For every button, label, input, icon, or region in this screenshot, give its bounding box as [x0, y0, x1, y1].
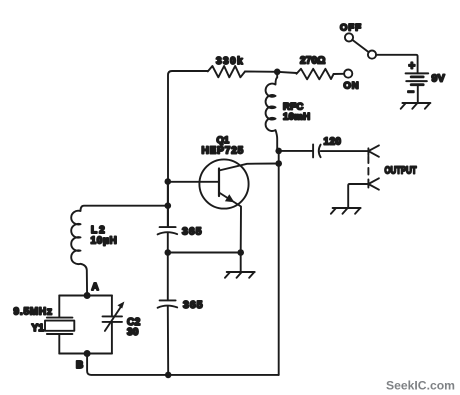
capacitor C5 365 lower plates [160, 299, 176, 301]
wire: C2 top lead [111, 296, 113, 317]
transistor Q1 base bar [218, 169, 220, 197]
connector J1 shield (bottom) [368, 178, 379, 189]
transistor Q1 emitter [219, 193, 241, 253]
switch S1 OFF contact circle [345, 33, 353, 41]
ground G1 (battery) [401, 103, 431, 109]
node junction L2 tee [165, 202, 172, 209]
capacitor C2 plates [103, 315, 123, 317]
node junction emitter tee [165, 249, 172, 256]
battery B1 plates [406, 72, 429, 74]
svg-text:365: 365 [182, 226, 203, 238]
wire: emitter to ground [240, 253, 242, 272]
svg-text:270Ω: 270Ω [300, 56, 326, 67]
svg-text:120: 120 [324, 137, 342, 148]
svg-text:Q1: Q1 [217, 135, 230, 146]
svg-text:Y1: Y1 [32, 323, 45, 334]
wire: battery negative lead [417, 85, 419, 103]
switch S1 ON contact circle [344, 70, 352, 78]
wire + inductor L2 coil [71, 206, 168, 296]
transistor Q1 emitter arrow [225, 194, 234, 202]
node B [84, 350, 91, 357]
node junction base tee [165, 178, 172, 185]
node junction emitter/ground [237, 249, 244, 256]
svg-text:10µH: 10µH [91, 236, 118, 247]
crystal Y1 bottom plate [47, 333, 73, 335]
svg-text:330k: 330k [216, 56, 244, 67]
wire: bottom return wire [168, 374, 279, 376]
node A [84, 292, 91, 299]
connector J1 output tip (top) [368, 145, 379, 156]
wire: tank top [59, 295, 112, 297]
svg-text:9.5MHz: 9.5MHz [14, 307, 53, 318]
node junction supply/RFC [274, 69, 281, 76]
wire: left rail top segment [168, 71, 208, 227]
svg-text:9V: 9V [432, 73, 446, 85]
ground G2 (output) [331, 208, 361, 214]
svg-text:−: − [408, 87, 415, 99]
svg-text:30: 30 [127, 327, 139, 338]
node junction collector [275, 160, 282, 167]
capacitor C3 120 plates [312, 144, 314, 157]
wire: switch common to battery [376, 55, 418, 73]
resistor R1 330k zigzag [208, 66, 245, 77]
capacitor C4 365 upper: rail gap [167, 182, 169, 227]
wire: resistor to ON contact [334, 73, 345, 75]
wire: supply wire to junction [245, 71, 277, 73]
svg-text:365: 365 [183, 299, 204, 311]
wire: emitter tee wire [168, 252, 241, 254]
svg-text:OFF: OFF [340, 23, 362, 34]
wire: junction to capacitor 120 [279, 150, 313, 152]
transistor Q1 collector [219, 164, 279, 171]
svg-text:ON: ON [344, 81, 360, 92]
wire: rail between caps [167, 233, 169, 300]
svg-text:+: + [409, 61, 416, 73]
wire: capacitor to output jack [321, 150, 369, 152]
svg-text:SeekIC.com: SeekIC.com [386, 379, 455, 393]
crystal Y1 top plate [47, 317, 73, 319]
ground G3 (emitter) [225, 272, 255, 278]
dashed shield line [367, 157, 369, 181]
wire: shield to ground [348, 184, 368, 208]
capacitor C2 arrow [105, 305, 123, 331]
wire: rail below lower cap [167, 306, 169, 375]
node junction RFC/120 cap [275, 148, 282, 155]
wire: base lead [168, 181, 219, 183]
wire: tank bottom [59, 353, 112, 355]
svg-text:10mH: 10mH [283, 112, 310, 123]
svg-text:L2: L2 [91, 225, 107, 236]
resistor R2 270ohm zigzag [297, 69, 334, 80]
wire: node B to bottom wire [87, 354, 168, 375]
wire: crystal bottom lead [58, 334, 60, 354]
inductor RFC coil [266, 72, 278, 151]
wire: crystal top lead [58, 296, 60, 318]
svg-text:B: B [76, 360, 83, 371]
svg-text:A: A [92, 282, 99, 293]
wire: C2 bottom lead [111, 322, 113, 354]
svg-text:HEP725: HEP725 [202, 146, 245, 157]
crystal Y1 body [45, 321, 74, 331]
switch S1 lever [352, 40, 369, 52]
switch S1 common contact circle [368, 51, 376, 59]
transistor Q1 circle [199, 159, 248, 208]
svg-text:OUTPUT: OUTPUT [385, 166, 417, 177]
wire: junction to 270 resistor [277, 72, 296, 73]
wire: collector rail down [278, 151, 280, 375]
node junction bottom left [165, 372, 172, 379]
